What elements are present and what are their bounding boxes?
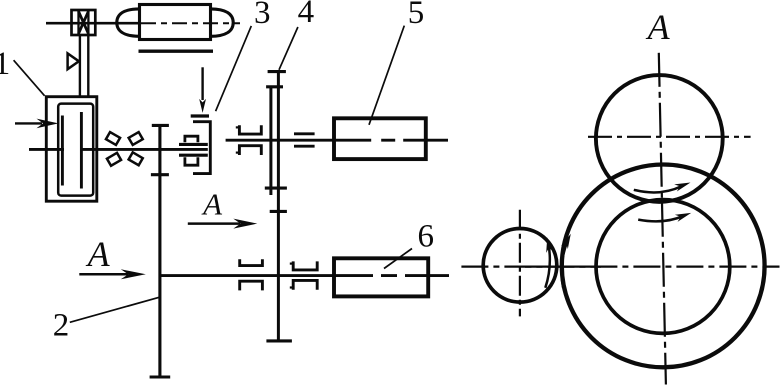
sliding sleeve on shaft II <box>294 134 315 146</box>
universal joint on shaft I <box>106 132 120 145</box>
block 3 top cap <box>191 114 209 117</box>
gear z1 top cap <box>152 124 169 127</box>
rotation arrow big gear left <box>562 240 568 288</box>
svg-text:1: 1 <box>0 46 10 82</box>
big gear outer circle <box>562 165 765 368</box>
leader line 4 <box>279 27 298 70</box>
coupling box 5 <box>334 118 426 159</box>
gear 4a line <box>269 87 272 195</box>
main horizontal centerline <box>461 266 779 268</box>
unit 1 housing (outer box) <box>46 97 97 202</box>
section arrow A lower <box>79 273 128 276</box>
V-belt type triangle symbol <box>68 53 79 69</box>
V-belt (vertical) <box>80 35 88 97</box>
vertical centerline of view A <box>659 53 666 385</box>
motor base line <box>139 50 214 53</box>
unit 1 inner sleeve <box>58 104 93 196</box>
gear 2 bottom cap <box>150 375 171 378</box>
leader line 6 <box>384 249 412 269</box>
jaw clutch lower-right <box>293 261 317 289</box>
motor M body <box>117 5 233 40</box>
small gear circle <box>483 228 557 302</box>
main centerline solid at contact <box>525 266 601 268</box>
gear z1 / gear 2 line <box>158 125 161 377</box>
jaw clutch lower-left <box>240 259 263 290</box>
svg-text:6: 6 <box>417 218 434 254</box>
gear caps on shaft II column <box>265 72 292 341</box>
jaw clutch on shaft II <box>239 125 261 155</box>
leader line 1 <box>14 60 45 96</box>
shaft II <box>226 139 448 142</box>
rotation arrow big gear top <box>638 216 683 222</box>
rotation arrow small gear <box>545 242 550 288</box>
shaft I <box>29 148 208 151</box>
actuation arrow on 3 <box>201 67 203 100</box>
mesh cap z1/gear2 <box>151 173 169 176</box>
shaft III <box>160 274 449 277</box>
gear 4b / lower gear line <box>277 72 280 341</box>
block 3 shift bracket <box>193 122 210 174</box>
svg-text:A: A <box>86 234 111 274</box>
svg-text:5: 5 <box>408 0 425 31</box>
sliding gear block 3: gear flanges <box>179 136 208 165</box>
big gear inner circle <box>596 200 730 334</box>
svg-text:A: A <box>646 7 671 47</box>
svg-text:2: 2 <box>53 307 70 343</box>
vertical centerline of small gear <box>519 210 521 317</box>
leader line 5 <box>369 26 404 125</box>
svg-text:A: A <box>201 187 223 222</box>
motor shaft <box>46 22 141 25</box>
leader line 2 <box>70 297 160 322</box>
svg-text:3: 3 <box>254 0 271 31</box>
motor axis dash-dot line <box>141 22 240 24</box>
svg-text:4: 4 <box>298 0 315 30</box>
section arrow A upper <box>188 222 240 225</box>
leader line 3 <box>216 26 252 111</box>
rotation arrow top gear <box>634 186 682 192</box>
top gear circle <box>596 75 723 202</box>
input arrow into unit 1 <box>15 122 42 124</box>
unit 1 piston lines <box>62 112 81 189</box>
coupling box 6 <box>334 258 428 296</box>
belt pulley with bearing cross on motor shaft <box>72 10 96 35</box>
horizontal centerline of top gear <box>588 136 751 138</box>
